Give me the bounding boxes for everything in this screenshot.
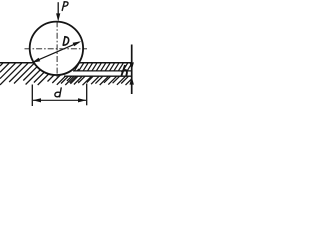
hatch strokes: upper right band above depth gap — [70, 63, 75, 71]
D arrowhead lower-left — [32, 58, 41, 63]
hatch strokes: lower right band below depth gap — [61, 76, 68, 83]
label D — [63, 37, 68, 46]
ball (indenter) — [30, 22, 83, 75]
white gap for depth dimension label — [62, 71, 131, 75]
depth dimension line h — [131, 45, 133, 95]
vertical centerline — [56, 21, 58, 78]
hatched material section — [0, 63, 131, 85]
d left arrowhead — [33, 98, 41, 102]
d right arrowhead — [78, 98, 86, 102]
label P — [62, 2, 68, 11]
D arrowhead upper-right — [73, 41, 82, 46]
d dimension: left extension line — [31, 85, 33, 107]
hatch strokes: main band left of / under ball — [0, 63, 3, 66]
label h — [122, 66, 127, 76]
horizontal centerline — [25, 48, 88, 50]
surface line right — [79, 62, 132, 64]
label d — [55, 88, 61, 97]
d dimension line — [33, 99, 86, 101]
force arrowhead — [56, 13, 60, 21]
upper gap border line — [73, 70, 132, 72]
surface line left — [0, 62, 34, 64]
force arrow P — [57, 2, 59, 15]
diameter arrow D — [34, 42, 80, 62]
lower gap border line — [64, 75, 132, 77]
h down arrowhead — [130, 62, 134, 70]
h up arrowhead — [130, 77, 134, 85]
d dimension: right extension line — [86, 84, 88, 106]
